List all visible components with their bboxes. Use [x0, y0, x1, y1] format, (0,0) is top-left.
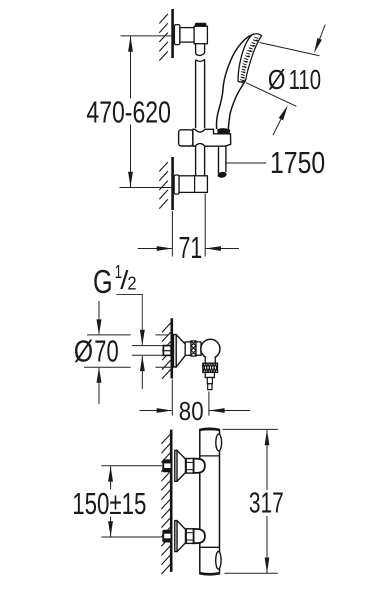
- thermostat top cap thick edge: [200, 429, 219, 430]
- svg-text:Ø: Ø: [268, 64, 286, 95]
- thermostat bottom cap thick edge: [200, 573, 219, 574]
- label G 1/2 leader line: [117, 295, 143, 332]
- dimension 80 left extension line: [171, 380, 173, 416]
- lower S-union: [163, 521, 205, 552]
- outlet lower collar: [205, 372, 214, 377]
- svg-text:470-620: 470-620: [86, 94, 170, 129]
- G 1/2 pipe dimension arrows: [140, 330, 145, 389]
- S-union olive cap: [194, 459, 205, 473]
- S-union escutcheon cone: [175, 521, 186, 552]
- svg-text:70: 70: [94, 335, 118, 369]
- dimension 470-620 extension line top: [121, 35, 172, 37]
- top rail bracket: rail clamp box: [194, 26, 207, 43]
- top rail bracket: wall escutcheon flange: [174, 25, 180, 45]
- svg-text:150±15: 150±15: [72, 486, 146, 521]
- volume handle edge ellipse (bottom right): [216, 552, 221, 570]
- dimension Ø110 upper tangent line: [260, 43, 320, 56]
- shower hose: [217, 146, 227, 178]
- svg-text:71: 71: [179, 230, 203, 265]
- escutcheon cone (middle): [174, 335, 186, 367]
- hand shower face perforation ticks: [241, 37, 258, 83]
- S-union connection nut: [186, 459, 193, 474]
- dimension Ø110 lower tangent line: [246, 83, 296, 107]
- svg-text:Ø: Ø: [74, 335, 93, 369]
- label 1750 leader line: [226, 162, 266, 164]
- wall (bottom section): [170, 430, 173, 572]
- union cylinder A: [185, 342, 191, 355]
- svg-text:317: 317: [249, 488, 284, 520]
- thermostat bottom shoulder line: [200, 546, 220, 548]
- rail lower segment: [196, 146, 205, 176]
- dimension Ø70 dimension line with arrows: [97, 301, 102, 404]
- S-union hex nut at wall: [163, 460, 172, 472]
- svg-text:110: 110: [289, 64, 321, 95]
- svg-text:G: G: [93, 263, 113, 300]
- dimension 80 right extension line: [208, 392, 210, 416]
- holder glider: body on rail: [193, 129, 231, 146]
- valve ball body: [201, 339, 220, 358]
- top rail bracket: dark cap: [195, 23, 207, 27]
- svg-text:2: 2: [127, 272, 136, 293]
- top rail bracket: arm: [180, 28, 194, 42]
- supply pipe stub in wall with hex nut: [163, 346, 171, 356]
- dimension 71 left extension line: [171, 211, 173, 257]
- wall hatching (bottom section): [161, 435, 170, 575]
- S-union connection nut: [186, 529, 193, 544]
- dimension 150±15 extension lines: [101, 466, 162, 537]
- S-union olive cap: [194, 529, 205, 543]
- union cylinder B: [196, 342, 201, 355]
- dimension 317 extension lines: [223, 429, 278, 573]
- wall hatching top segment: [159, 14, 168, 61]
- S-union hex nut at wall: [163, 530, 172, 542]
- wall top segment (top section): [171, 9, 174, 58]
- thermostat top shoulder line: [200, 455, 220, 457]
- dimension 150±15 dimension line with arrows: [108, 466, 113, 537]
- dimension 71 arrows: [138, 246, 239, 251]
- hand shower head outline: [216, 35, 251, 129]
- dimension Ø110 upper arrow: [314, 25, 325, 54]
- hose nipple: [207, 378, 212, 390]
- bottom rail bracket: wall escutcheon flange: [174, 175, 179, 194]
- bottom rail bracket: clamp divider line: [194, 176, 196, 193]
- hand shower handle butt (dark) in holder: [217, 128, 230, 134]
- dimension 80 arrows: [140, 408, 251, 413]
- dimension Ø110 lower arrow: [273, 105, 288, 135]
- wall (middle section): [171, 318, 174, 378]
- bottom rail bracket: bracket body: [179, 176, 207, 193]
- outlet neck: [205, 357, 215, 363]
- dimension 317 dimension line with arrows: [265, 430, 270, 573]
- wall hatching (middle section): [162, 323, 171, 379]
- wall bottom segment (top section): [171, 157, 174, 210]
- G 1/2 pipe extension lines: [132, 346, 164, 356]
- dimension Ø70 extension lines: [84, 335, 172, 367]
- dimension 470-620 extension line bottom: [120, 187, 173, 189]
- dimension 71 right extension line: [204, 194, 206, 257]
- upper S-union: [163, 450, 205, 481]
- label G 1/2 text: [93, 261, 137, 300]
- rail upper segment with break: [196, 44, 205, 128]
- S-union escutcheon cone: [175, 450, 186, 481]
- wall hatching bottom segment: [159, 162, 168, 209]
- svg-text:1750: 1750: [270, 146, 325, 180]
- svg-text:80: 80: [179, 396, 204, 426]
- union knurled ring: [191, 341, 196, 356]
- temperature handle edge ellipse (top right): [216, 434, 222, 451]
- dimension 470-620 dimension line with arrows: [128, 36, 133, 187]
- holder glider: locking knob: [179, 130, 193, 146]
- thermostat body tube: [200, 430, 220, 574]
- hand shower face rim band: [238, 34, 261, 82]
- outlet knurled nut (dark): [203, 363, 218, 372]
